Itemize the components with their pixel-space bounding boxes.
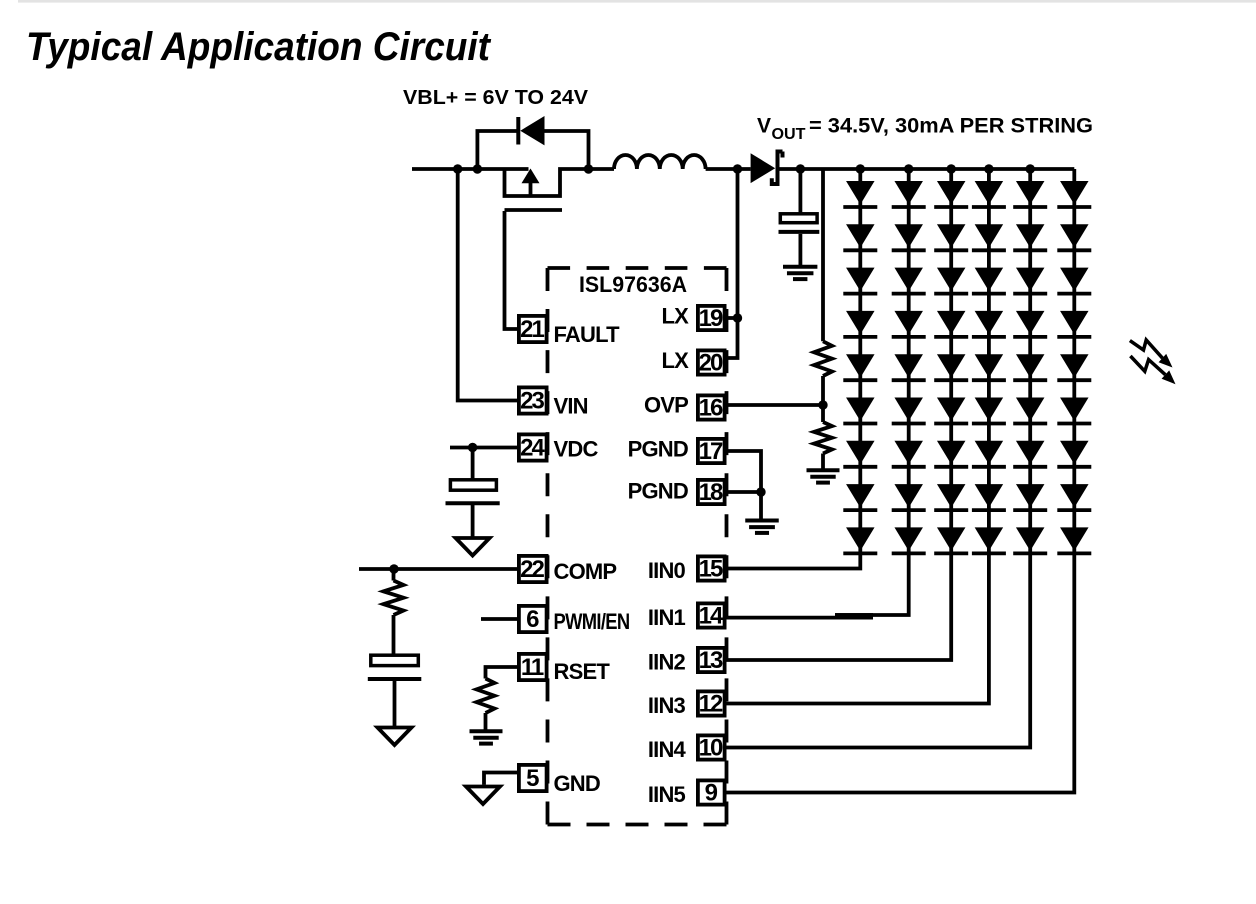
svg-text:LX: LX [661,304,689,329]
ground COMP (triangle) [378,728,412,746]
wire input rail VBL+ [412,167,529,171]
wire R1 to node [821,376,825,405]
transistor Q1 source-channel [505,169,589,196]
diode D1 cathode bar [516,117,520,145]
wire COMP pin 22 [359,567,517,571]
pin 24 box [519,434,547,460]
capacitor CCOMP bottom plate [368,677,422,681]
svg-text:IIN0: IIN0 [648,558,686,583]
node LX pin 19 [733,313,742,322]
node PGND [756,487,765,496]
svg-text:COMP: COMP [554,559,617,584]
svg-text:18: 18 [699,479,723,506]
ground COUT [783,265,817,269]
svg-text:13: 13 [699,647,723,674]
svg-text:LX: LX [661,348,689,373]
svg-text:GND: GND [554,771,601,796]
wire R2 to ground [821,454,825,470]
pin 6 box [519,606,547,632]
wire inductor to D2 [706,167,751,171]
svg-text:21: 21 [520,316,544,343]
LED string 3 (IIN2) [727,164,969,660]
svg-text:14: 14 [699,603,724,630]
svg-text:15: 15 [699,556,723,583]
light emission arrow lower [1130,356,1165,375]
svg-text:17: 17 [699,438,723,465]
node COMP [389,564,398,573]
LED string 2 (IIN1) [727,164,926,619]
transistor Q1 body arrow head [522,169,540,184]
wire COMP to RCOMP [392,569,396,581]
wire RSET pin 11 [486,667,518,679]
wire VIN riser to pin 23 [458,169,517,401]
IC U1 ISL97636A boundary [548,268,727,825]
pin 14 box [698,603,725,627]
resistor R2 OVP lower [814,422,832,454]
svg-text:OVP: OVP [644,393,688,418]
wire CCOMP bottom [393,681,397,728]
node OVP [818,400,827,409]
capacitor COUT bottom plate [779,230,820,234]
wire D1 right riser [545,131,589,169]
svg-text:RSET: RSET [554,659,611,684]
wire OVP divider top [821,169,825,341]
svg-text:6: 6 [526,606,539,633]
wire VDC cap top [471,448,475,479]
node LX tap [733,164,742,173]
wire PGND to ground [759,492,763,519]
wire output bus VOUT [778,167,1075,171]
svg-text:IIN1: IIN1 [648,605,686,630]
svg-text:9: 9 [705,780,718,807]
wire D1 left riser [477,131,516,169]
node VIN tap [453,164,462,173]
pin 11 box [519,654,547,680]
light emission arrow upper [1130,340,1163,358]
pin 17 box [698,439,725,463]
svg-text:23: 23 [520,388,544,415]
wire COUT bottom [799,234,803,265]
wire LX pin 19 stub [727,316,738,320]
node D1 left [473,164,482,173]
diode D2 schottky cathode [772,152,783,185]
ground PGND [745,519,779,523]
svg-text:IIN2: IIN2 [648,650,686,675]
ground GND pin 5 (triangle) [466,787,500,805]
pin 15 box [698,556,725,580]
wire GND pin 5 [484,773,517,785]
svg-text:FAULT: FAULT [554,322,621,347]
pin 22 box [519,556,547,582]
wire node to R2 [821,405,825,422]
svg-text:IIN4: IIN4 [648,737,687,762]
svg-text:ISL97636A: ISL97636A [579,272,687,297]
pin 19 box [698,306,725,330]
svg-text:PWMI/EN: PWMI/EN [554,609,630,634]
pin 5 box [519,765,547,791]
pin 21 box [519,316,547,342]
svg-text:PGND: PGND [628,437,688,462]
wire VDC cap bottom [471,505,475,537]
LED string 6 (IIN5) [727,169,1092,793]
pin 13 box [698,648,725,672]
pin 12 box [698,691,725,715]
capacitor COUT top plate [780,214,817,223]
svg-text:VBL+ = 6V TO 24V: VBL+ = 6V TO 24V [403,87,589,109]
pin 23 box [519,387,547,413]
ground OVP divider [807,468,840,472]
wire VDC pin 24 [450,446,517,450]
resistor R1 OVP upper [814,341,832,376]
svg-text:PGND: PGND [628,479,688,504]
svg-text:10: 10 [699,735,723,762]
capacitor CVDC bottom plate [446,501,500,505]
LED string 4 (IIN3) [727,164,1006,703]
node COUT tap [796,164,805,173]
svg-text:= 34.5V, 30mA PER STRING: = 34.5V, 30mA PER STRING [809,115,1093,138]
wire RSET to ground [484,713,488,730]
svg-text:24: 24 [520,435,545,462]
wire PWMI/EN pin 6 stub [481,617,517,621]
svg-text:12: 12 [699,691,723,718]
diode D1 triangle [520,116,544,145]
transistor Q1 gate bar [505,208,563,212]
ground RSET [470,729,503,733]
svg-text:V: V [757,115,771,138]
svg-text:22: 22 [520,556,544,583]
LED string 5 (IIN4) [727,164,1048,747]
svg-text:VIN: VIN [554,394,588,419]
wire RCOMP to CCOMP [392,615,396,654]
wire LX vertical to pins 19/20 [727,169,738,358]
pin 16 box [698,395,725,419]
svg-text:IIN5: IIN5 [648,782,686,807]
pin 9 box [698,780,725,804]
wire COUT top [799,169,803,213]
diode D2 triangle [751,153,776,183]
LED string 1 (IIN0) [727,164,878,568]
inductor L1 [614,155,706,169]
svg-text:20: 20 [699,350,723,377]
svg-text:IIN3: IIN3 [648,693,686,718]
svg-text:5: 5 [526,765,539,792]
pin 10 box [698,735,725,759]
svg-text:VDC: VDC [554,437,599,462]
node VDC cap [468,443,477,452]
svg-text:19: 19 [699,305,723,332]
top border bar [18,0,1256,3]
pin 20 box [698,350,725,374]
wire rail to inductor [589,167,615,171]
svg-text:Typical Application Circuit: Typical Application Circuit [26,25,492,69]
svg-text:11: 11 [521,654,544,681]
resistor RSET [477,679,495,714]
node D1 right [584,164,593,173]
wire Q1 gate to FAULT pin 21 [505,211,518,329]
transistor Q1 body arrow shaft [529,181,533,196]
wire PGND pin 17 [727,451,762,490]
svg-text:16: 16 [699,395,723,422]
capacitor CCOMP top plate [371,655,419,665]
wire OVP pin 16 [727,403,824,407]
capacitor CVDC top plate [450,480,496,490]
resistor RCOMP [384,581,404,616]
pin 18 box [698,480,725,504]
ground VDC (triangle) [456,538,490,556]
wire PGND pin 18 [727,490,762,494]
svg-text:OUT: OUT [772,126,807,143]
